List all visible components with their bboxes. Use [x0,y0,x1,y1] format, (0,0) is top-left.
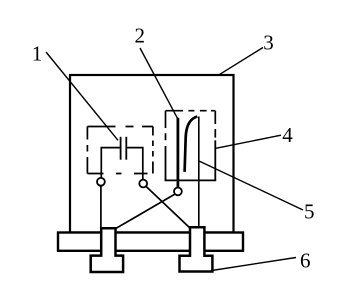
wire middle circle to right pin (diagonal) [146,186,190,228]
terminal circle right [174,188,182,196]
leader line 5 [199,161,303,210]
svg-text:5: 5 [304,199,315,223]
support wire to right pin [198,117,200,228]
holder cup 4 : left wall [165,146,167,180]
leader line 6 [212,258,296,271]
terminal circle middle [139,180,147,188]
leader line 2 [140,48,177,118]
pin left (6) [91,228,123,272]
leader line 3 [219,48,263,75]
terminal circle left [97,178,105,186]
capacitor lead left [101,148,120,178]
resonator dashed box 2 : left edge dashes [165,111,167,141]
svg-text:2: 2 [134,23,145,47]
pin right (6) [180,227,213,271]
wire right circle to left pin (diagonal) [115,194,175,229]
svg-text:1: 1 [32,42,43,66]
capacitor dashed box 1 : top edge [87,126,152,128]
holder cup 4 : right wall [214,140,216,180]
wire left circle to left pin [100,186,102,228]
electrode plate (thick vertical) [176,118,179,188]
vibrator element 5 (thick curved) [185,117,198,172]
resonator dashed box 2 : top edge [166,110,216,112]
capacitor C plates [120,137,122,160]
case outer box 3 [70,75,234,233]
capacitor dashed box 1 : left edge [86,127,88,174]
resonator dashed box 2 : right edge dashes [214,111,216,138]
leader line 4 [216,135,281,148]
svg-text:3: 3 [263,30,274,54]
base bar [58,233,243,251]
holder cup 4 : bottom [165,179,217,181]
leader line 1 [46,52,118,140]
svg-text:6: 6 [300,249,311,273]
capacitor dashed box 1 : bottom edge [87,173,147,175]
svg-text:4: 4 [282,123,293,147]
capacitor dashed box 1 : right edge [152,127,154,174]
capacitor lead right [126,148,143,180]
